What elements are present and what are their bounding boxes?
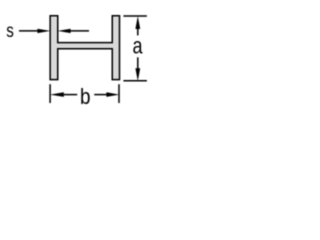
b right extension tick [118, 84, 120, 103]
b right arrowhead pointing right [106, 92, 119, 97]
H-profile cross-section outline [50, 16, 119, 80]
svg-text:s: s [6, 21, 14, 42]
s dimension line left segment [19, 30, 40, 32]
b dimension line left segment [63, 94, 77, 96]
a top extension tick [123, 15, 146, 17]
a upper dimension line [137, 28, 139, 35]
s dimension line right segment [69, 30, 90, 32]
svg-text:a: a [133, 33, 143, 59]
svg-text:b: b [80, 84, 91, 109]
a lower dimension line [137, 57, 139, 69]
a down arrowhead [135, 68, 140, 81]
b dimension line right segment [94, 94, 107, 96]
a up arrowhead [135, 16, 140, 29]
b left extension tick [49, 84, 51, 103]
b left arrowhead pointing left [50, 92, 64, 97]
a bottom extension tick [123, 80, 146, 82]
s arrow pointing left at bar right edge [58, 29, 71, 33]
s arrow pointing right at bar left edge [37, 29, 50, 33]
